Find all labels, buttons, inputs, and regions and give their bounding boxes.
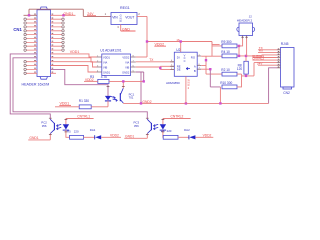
svg-text:VDD1: VDD1 bbox=[70, 50, 80, 54]
RJ45 pin8 ground tail bbox=[269, 68, 277, 104]
svg-text:U1 ADuM1201: U1 ADuM1201 bbox=[100, 49, 122, 53]
long wire CN1 row12 to PC3 bbox=[13, 58, 147, 120]
svg-text:220: 220 bbox=[167, 129, 172, 133]
svg-text:GND1: GND1 bbox=[103, 70, 111, 74]
B bus wiring bbox=[237, 63, 277, 76]
svg-text:D: D bbox=[120, 19, 122, 23]
resistor R3 4.7k bbox=[90, 75, 109, 83]
optocoupler PC1 (middle) bbox=[105, 80, 135, 107]
REG1 ground stub and GND label bbox=[120, 25, 122, 32]
svg-text:VDD2: VDD2 bbox=[122, 55, 129, 59]
svg-text:GND1: GND1 bbox=[125, 134, 134, 138]
svg-text:GND2: GND2 bbox=[142, 100, 151, 104]
svg-text:R4 10: R4 10 bbox=[221, 50, 230, 54]
net label CNTRL1 (at PC2) bbox=[66, 118, 94, 120]
svg-text:120: 120 bbox=[237, 67, 243, 71]
svg-text:RX: RX bbox=[259, 49, 263, 53]
wire R10 right up to B bus bbox=[237, 76, 242, 87]
GND2 net horizontal bbox=[123, 102, 268, 104]
svg-text:701: 701 bbox=[129, 96, 134, 100]
light arrows pointing left bbox=[154, 124, 159, 129]
U2 top supply stub bbox=[180, 42, 182, 53]
phototransistor bbox=[150, 123, 152, 130]
svg-text:CN2: CN2 bbox=[283, 91, 290, 95]
svg-text:R10 300: R10 300 bbox=[220, 81, 232, 85]
svg-text:VIB: VIB bbox=[125, 65, 129, 69]
svg-text:RO: RO bbox=[191, 55, 196, 59]
diode DA1 bbox=[90, 128, 121, 139]
wire U1 VOB to U2 RE/DE bbox=[136, 66, 175, 69]
svg-text:GND1: GND1 bbox=[63, 12, 73, 16]
wire R10 left down to GND2 bbox=[219, 87, 221, 104]
transceiver U2 bbox=[166, 48, 201, 85]
svg-text:HEADER 16x2/M: HEADER 16x2/M bbox=[22, 82, 50, 86]
resistor R2 10 bbox=[221, 68, 237, 76]
svg-text:16: 16 bbox=[176, 38, 180, 42]
svg-text:356: 356 bbox=[134, 124, 139, 128]
wire U2 RO to R4 (A line riser) bbox=[201, 55, 212, 57]
wire VDD2 elbow down to R9 and R4 bbox=[212, 42, 222, 57]
wire GND1 from CN1 right pin1 bbox=[51, 14, 76, 16]
svg-text:2: 2 bbox=[138, 12, 140, 16]
net label GND1 (at PC2 emitter) bbox=[28, 139, 50, 141]
svg-text:RJ45: RJ45 bbox=[281, 42, 289, 46]
svg-text:3: 3 bbox=[117, 25, 119, 29]
phototransistor bbox=[53, 123, 55, 130]
svg-text:R5: R5 bbox=[67, 130, 71, 134]
U2 ground stub bbox=[185, 76, 187, 103]
svg-text:R2 10: R2 10 bbox=[221, 68, 230, 72]
junction bbox=[28, 14, 30, 16]
CN1 left pin stubs and no-connect circles bbox=[26, 19, 37, 73]
wire REG1 VOUT to VDD2 rail bbox=[137, 16, 220, 57]
svg-text:VIA: VIA bbox=[125, 60, 129, 64]
svg-text:R6: R6 bbox=[161, 129, 165, 133]
svg-text:1: 1 bbox=[105, 12, 107, 16]
A bus wiring bbox=[237, 46, 277, 61]
svg-text:CNTRL2: CNTRL2 bbox=[171, 114, 184, 118]
LED bbox=[105, 96, 111, 101]
wire R1 right to PC1 LED cathode bbox=[91, 106, 108, 108]
svg-text:24V: 24V bbox=[87, 12, 94, 16]
net label CNTRL2 (at PC3) bbox=[163, 118, 191, 120]
svg-text:C: C bbox=[184, 59, 186, 63]
isolator U1 bbox=[97, 49, 136, 76]
light arrows bbox=[111, 96, 118, 101]
svg-text:VDD1: VDD1 bbox=[103, 55, 110, 59]
svg-text:VOUT: VOUT bbox=[125, 16, 134, 20]
svg-text:GND1: GND1 bbox=[29, 136, 38, 140]
svg-text:U2: U2 bbox=[176, 48, 180, 52]
svg-text:ADM4850: ADM4850 bbox=[166, 81, 180, 85]
resistor R9 300 bbox=[221, 40, 237, 48]
svg-text:TX: TX bbox=[149, 58, 154, 62]
LED bbox=[65, 119, 67, 125]
resistor R1 330 bbox=[79, 99, 91, 109]
resistor R10 300 bbox=[220, 81, 237, 89]
svg-text:GND2: GND2 bbox=[122, 70, 130, 74]
wires CN1 to U1 bbox=[51, 54, 97, 72]
svg-text:REG1: REG1 bbox=[120, 6, 130, 10]
svg-text:356: 356 bbox=[42, 124, 47, 128]
RJ45 connector CN2 bbox=[277, 42, 294, 95]
termination resistor R8 120 bbox=[237, 61, 248, 74]
svg-text:DE: DE bbox=[177, 68, 181, 72]
svg-text:VIA: VIA bbox=[103, 60, 107, 64]
svg-text:R1 330: R1 330 bbox=[79, 99, 90, 103]
wire U1 VDD2 pin up to VDD2 rail bbox=[136, 56, 147, 58]
phototransistor bbox=[119, 93, 121, 101]
junction bbox=[146, 40, 148, 42]
LED bbox=[162, 119, 164, 125]
svg-text:DA2: DA2 bbox=[184, 128, 190, 132]
optocoupler PC2 (bottom left) bbox=[41, 119, 69, 140]
svg-text:CNTRL1: CNTRL1 bbox=[77, 114, 90, 118]
wire U2 A riser to R2 bbox=[201, 56, 222, 74]
resistor R4 10 bbox=[221, 50, 237, 58]
svg-text:220: 220 bbox=[74, 130, 79, 134]
wire U1 VOA to U2 DI bbox=[136, 61, 175, 63]
svg-text:R9 300: R9 300 bbox=[221, 40, 232, 44]
svg-text:CNTRL2: CNTRL2 bbox=[252, 57, 264, 61]
wire U2 B riser to R10 bbox=[201, 68, 210, 70]
junction bbox=[62, 14, 64, 16]
svg-text:24V: 24V bbox=[257, 62, 263, 66]
wire R3 right to riser bbox=[109, 80, 144, 82]
regulator REG1 bbox=[105, 6, 141, 29]
svg-text:HEADER 2: HEADER 2 bbox=[237, 19, 253, 23]
wire 24V loop from CN1 pin1 over the top to REG1 bbox=[24, 9, 112, 16]
light arrows pointing left bbox=[57, 124, 62, 129]
wire U1 GND2 down to GND2 net bbox=[136, 72, 144, 103]
connector CN1 bbox=[13, 7, 53, 86]
CN1 right pin stubs and no-connect circles bbox=[51, 19, 62, 73]
svg-text:4.7k: 4.7k bbox=[101, 75, 107, 79]
long wire CN1 row11 to PC2 bbox=[10, 54, 50, 119]
RJ45 wires + labels bbox=[253, 50, 278, 65]
CN1 pin numbers (tiny) bbox=[34, 14, 53, 73]
net label GND1 (at PC3 emitter) bbox=[124, 137, 147, 139]
svg-text:VIB: VIB bbox=[103, 65, 107, 69]
svg-text:VDD2: VDD2 bbox=[203, 134, 212, 138]
resistor R6 220 bbox=[161, 129, 178, 139]
svg-text:CN1: CN1 bbox=[13, 27, 22, 32]
optocoupler PC3 (bottom middle) bbox=[134, 119, 167, 139]
svg-text:VDD2: VDD2 bbox=[110, 134, 119, 138]
svg-text:B: B bbox=[194, 69, 196, 73]
svg-text:DA1: DA1 bbox=[90, 128, 96, 132]
header J2 bbox=[237, 15, 255, 39]
resistor R5 220 bbox=[67, 130, 84, 140]
wire CN1 row15 to PC1 LED bbox=[51, 69, 109, 96]
svg-text:DI: DI bbox=[177, 55, 180, 59]
diode DA2 bbox=[184, 128, 213, 139]
svg-text:VIN: VIN bbox=[112, 16, 118, 20]
